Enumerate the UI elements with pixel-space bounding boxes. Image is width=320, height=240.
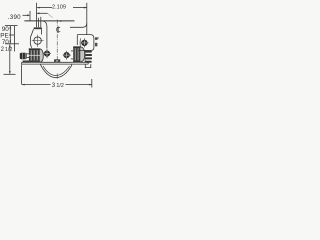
svg-text:.390: .390 xyxy=(8,14,21,21)
svg-text:1/2: 1/2 xyxy=(56,83,64,89)
svg-text:1/2: 1/2 xyxy=(5,47,12,53)
svg-text:70: 70 xyxy=(2,39,10,46)
svg-text:2.109: 2.109 xyxy=(52,5,66,11)
